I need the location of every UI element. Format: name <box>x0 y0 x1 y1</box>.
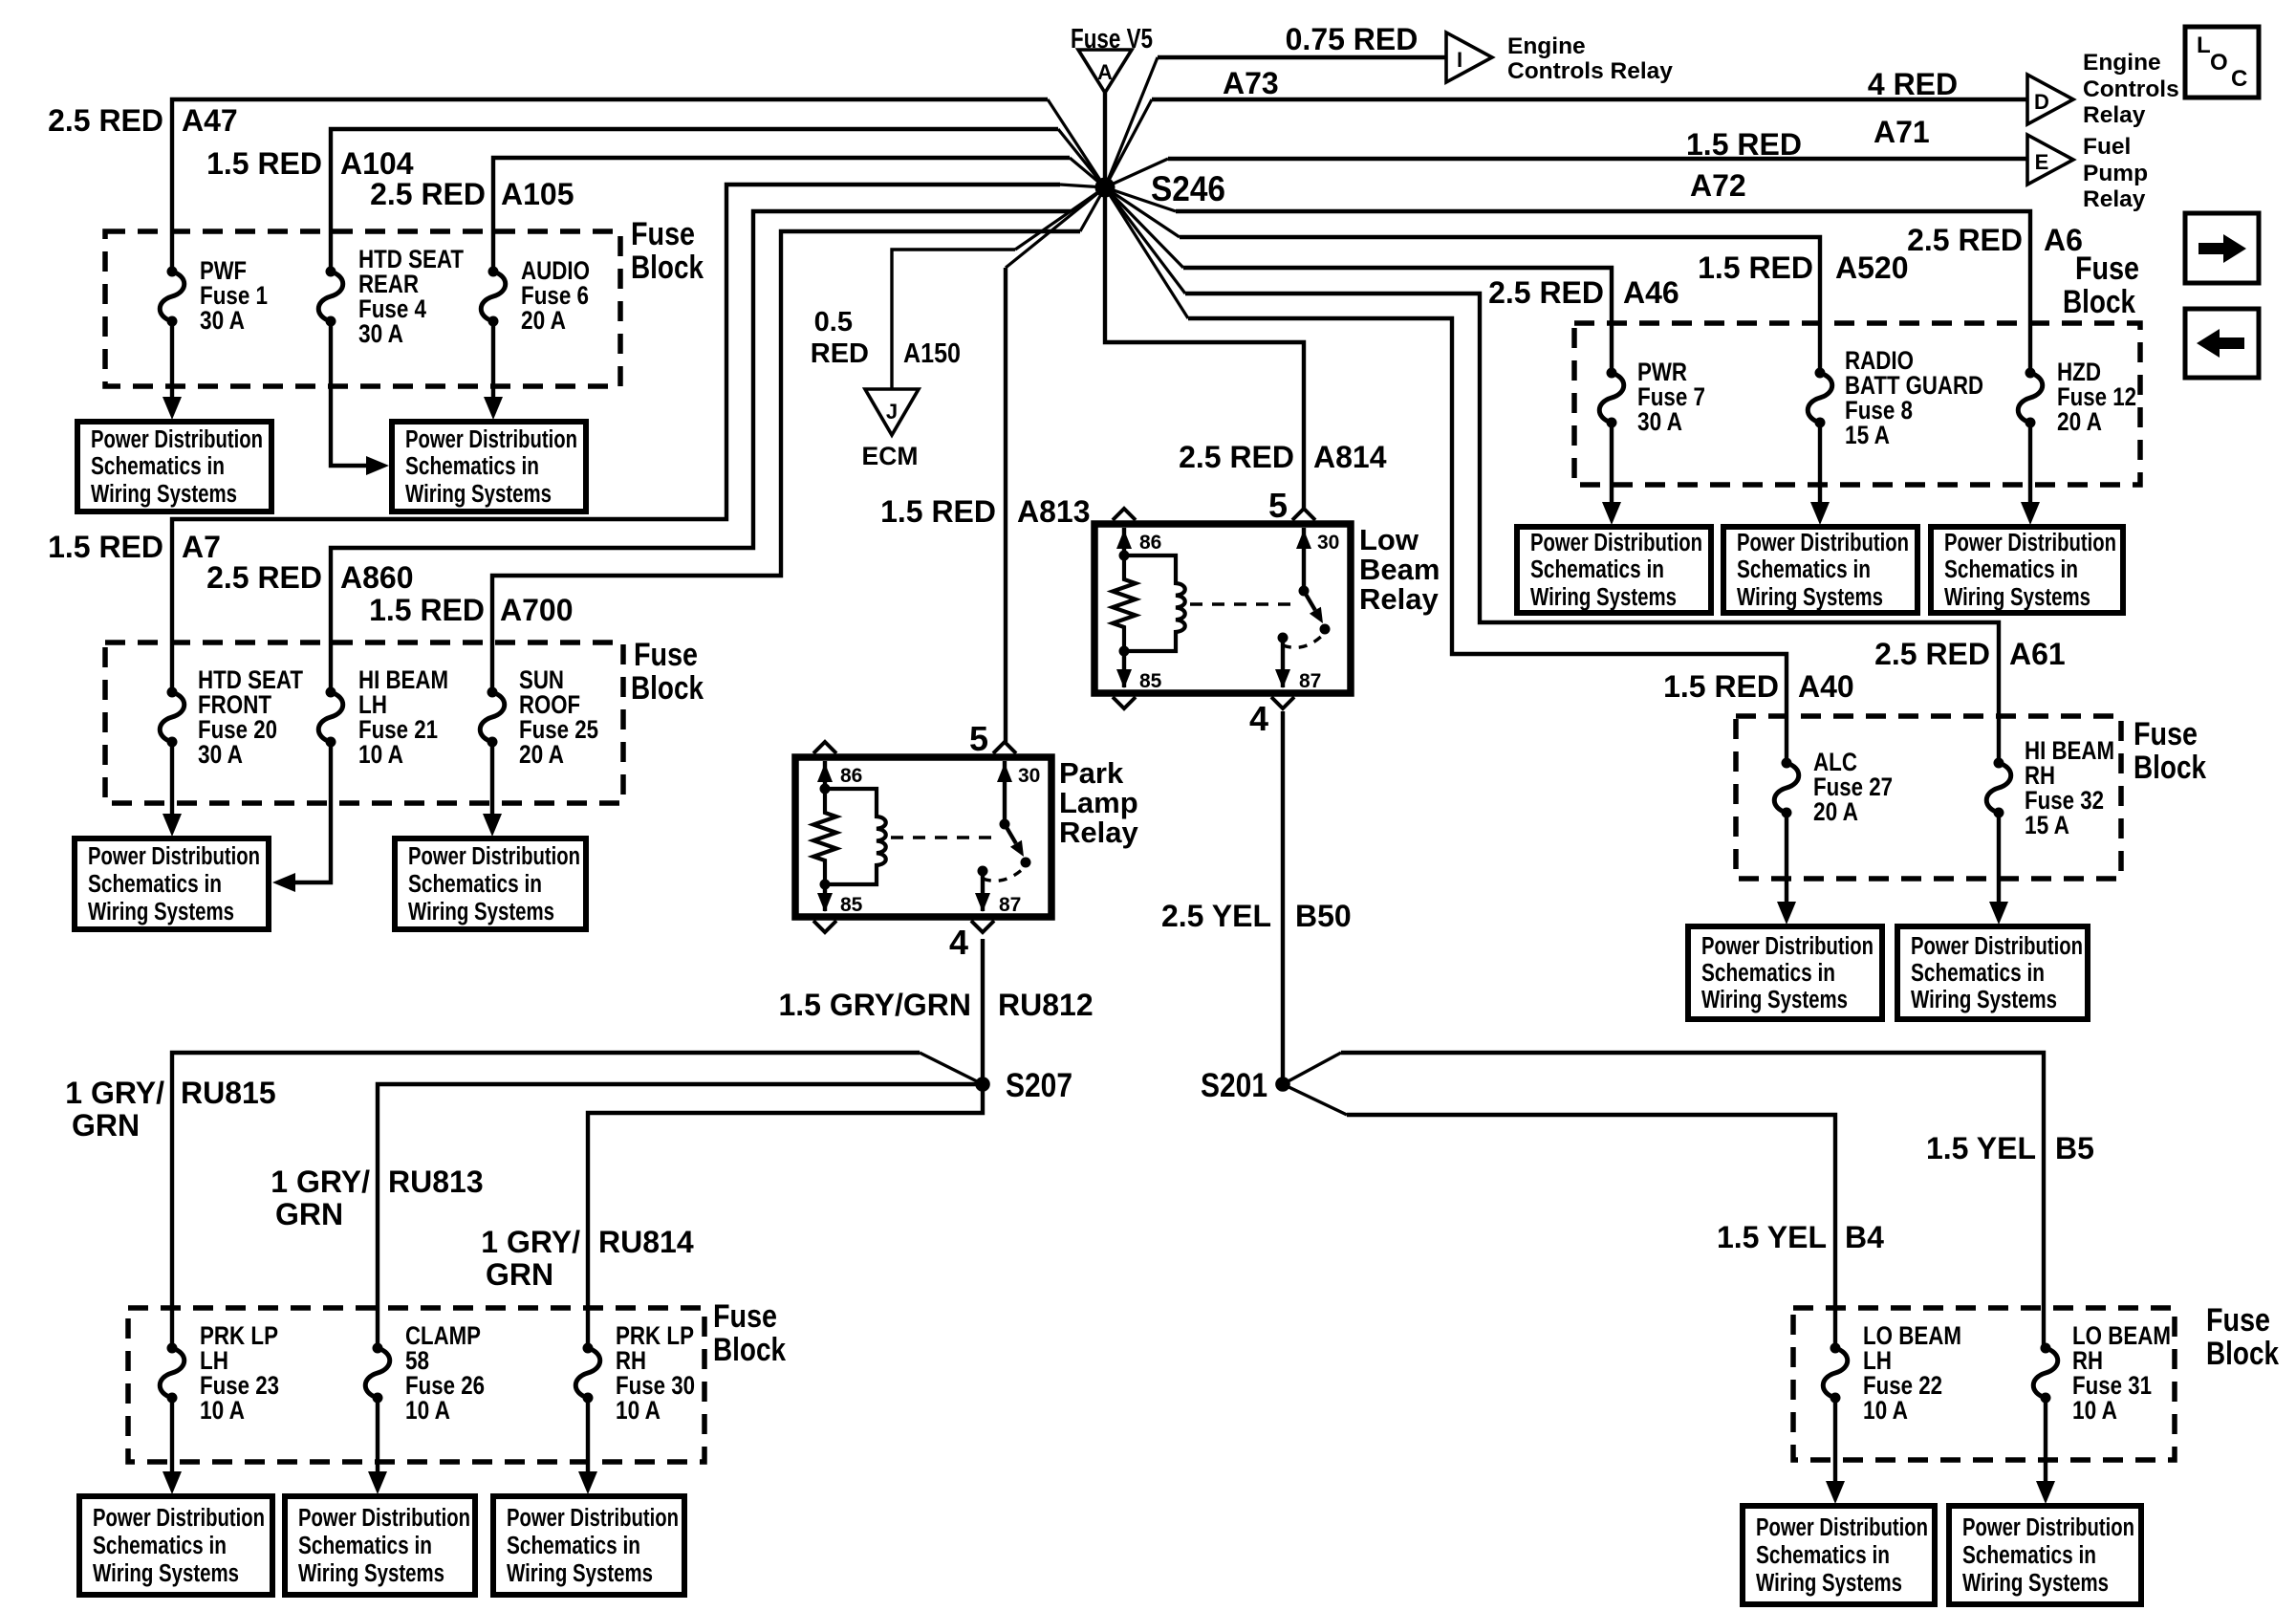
svg-text:Schematics in: Schematics in <box>1962 1542 2096 1569</box>
svg-text:GRN: GRN <box>72 1108 140 1143</box>
power distribution box (fuse 12) <box>1931 527 2123 613</box>
fuse 31 LO BEAM RH symbol <box>2041 1343 2051 1354</box>
wire B5 (S201 to fuse 31) <box>1341 1053 2044 1348</box>
svg-text:20 A: 20 A <box>1813 797 1858 826</box>
svg-text:Relay: Relay <box>2083 186 2146 212</box>
relay K2 Low Beam pin 87 terminal <box>1281 638 1285 687</box>
svg-text:Schematics in: Schematics in <box>1530 556 1664 583</box>
svg-text:15 A: 15 A <box>2025 811 2069 839</box>
wire A814 (S246 to low beam relay pin 30) <box>1105 187 1304 509</box>
svg-text:Engine: Engine <box>1507 33 1586 59</box>
svg-text:1.5 RED: 1.5 RED <box>880 494 996 529</box>
LOC legend box <box>2185 27 2259 98</box>
svg-text:Block: Block <box>713 1332 786 1368</box>
svg-text:10 A: 10 A <box>358 740 403 769</box>
connector D (engine controls relay) <box>2027 75 2073 124</box>
svg-text:C: C <box>2231 66 2247 92</box>
svg-text:Pump: Pump <box>2083 161 2148 186</box>
svg-text:1 GRY/: 1 GRY/ <box>271 1165 370 1199</box>
svg-text:Wiring Systems: Wiring Systems <box>298 1560 444 1587</box>
svg-text:A860: A860 <box>340 560 414 595</box>
svg-text:Schematics in: Schematics in <box>1911 960 2045 987</box>
svg-text:B4: B4 <box>1845 1220 1884 1254</box>
wire A700 feed (S246 to fuse 25) <box>492 231 1080 692</box>
svg-text:RU815: RU815 <box>181 1076 276 1110</box>
svg-text:O: O <box>2210 50 2228 76</box>
svg-text:S246: S246 <box>1151 169 1225 208</box>
svg-text:Engine: Engine <box>2083 50 2161 76</box>
wire RU814 (S207 to fuse 30) <box>588 1084 983 1348</box>
relay K1 Park Lamp coil winding <box>825 789 886 884</box>
svg-text:Low: Low <box>1359 523 1419 556</box>
svg-text:Wiring Systems: Wiring Systems <box>88 899 234 925</box>
svg-text:A105: A105 <box>501 177 574 211</box>
wire A72 (S246 to connector E) <box>1168 157 2027 161</box>
svg-text:A71: A71 <box>1874 115 1930 149</box>
wire RU815 (S207 to fuse 23) <box>172 1053 920 1348</box>
svg-text:Power Distribution: Power Distribution <box>93 1505 265 1532</box>
relay K2 Low Beam pin 87 connector stub (cavity 4) <box>1271 697 1294 708</box>
svg-text:A40: A40 <box>1798 669 1854 704</box>
power distribution box (fuses 4/6) <box>392 422 586 512</box>
svg-text:Fuse: Fuse <box>2134 716 2198 752</box>
svg-text:D: D <box>2034 90 2049 114</box>
svg-text:A6: A6 <box>2044 223 2083 257</box>
wire fuse 21 output arrow <box>291 742 331 882</box>
svg-text:Fuse: Fuse <box>634 637 698 673</box>
svg-text:2.5 RED: 2.5 RED <box>370 177 486 211</box>
svg-text:Power Distribution: Power Distribution <box>298 1505 470 1532</box>
svg-text:Block: Block <box>631 250 704 286</box>
svg-text:5: 5 <box>1268 486 1288 525</box>
svg-text:30 A: 30 A <box>1637 407 1682 436</box>
power distribution box (fuse 31) <box>1949 1506 2141 1604</box>
svg-text:Wiring Systems: Wiring Systems <box>405 481 552 508</box>
fuse block 6 (bottom right) dashed outline <box>1793 1308 2175 1460</box>
svg-text:4: 4 <box>949 923 968 962</box>
svg-text:1.5 RED: 1.5 RED <box>369 593 485 627</box>
svg-text:Schematics in: Schematics in <box>1701 960 1835 987</box>
svg-text:Wiring Systems: Wiring Systems <box>1756 1570 1902 1597</box>
svg-text:Schematics in: Schematics in <box>408 871 542 898</box>
svg-text:Controls: Controls <box>2083 76 2179 102</box>
splice node S246 <box>1095 178 1116 198</box>
wire fuse 31 output arrow <box>2044 1398 2047 1486</box>
svg-text:A72: A72 <box>1690 168 1746 203</box>
relay K1 Park Lamp pin 87 terminal <box>981 871 985 911</box>
power distribution box (fuse 23) <box>79 1496 272 1595</box>
relay K2 Low Beam pin 86 terminal <box>1122 528 1126 555</box>
fuse 27 ALC symbol <box>1782 758 1792 769</box>
page-forward arrow box <box>2185 213 2259 283</box>
svg-text:Power Distribution: Power Distribution <box>1530 530 1702 556</box>
svg-text:2.5 YEL: 2.5 YEL <box>1161 899 1271 933</box>
svg-text:Wiring Systems: Wiring Systems <box>93 1560 239 1587</box>
svg-text:Fuse V5: Fuse V5 <box>1071 24 1153 54</box>
svg-text:10 A: 10 A <box>2072 1396 2117 1425</box>
svg-text:10 A: 10 A <box>405 1396 450 1425</box>
svg-text:2.5 RED: 2.5 RED <box>1179 440 1294 474</box>
svg-text:30 A: 30 A <box>200 306 245 335</box>
relay K2 Low Beam pin 85 terminal <box>1122 651 1126 687</box>
wire A520 feed (S246 to fuse 8) <box>1180 237 1820 373</box>
connector J (to ECM) <box>865 389 919 435</box>
svg-text:1.5 RED: 1.5 RED <box>1698 250 1813 285</box>
svg-text:Wiring Systems: Wiring Systems <box>1737 584 1883 611</box>
svg-text:1.5 RED: 1.5 RED <box>206 146 322 181</box>
fuse 25 SUN ROOF symbol <box>487 687 498 698</box>
power distribution box (fuses 20/21) <box>75 838 269 929</box>
wire A104 feed (S246 to fuse 4) <box>331 129 1058 272</box>
svg-text:Fuse: Fuse <box>2206 1302 2270 1339</box>
power distribution box (fuse 1) <box>77 422 271 512</box>
power distribution box (fuse 30) <box>493 1496 684 1595</box>
svg-text:Beam: Beam <box>1359 553 1440 586</box>
svg-text:Power Distribution: Power Distribution <box>1737 530 1909 556</box>
svg-text:2.5 RED: 2.5 RED <box>1488 275 1604 310</box>
svg-text:Power Distribution: Power Distribution <box>1962 1514 2134 1541</box>
svg-text:RU813: RU813 <box>388 1165 484 1199</box>
svg-text:A7: A7 <box>182 530 221 564</box>
svg-text:A150: A150 <box>903 338 961 369</box>
fuse 8 RADIO BATT GUARD symbol <box>1815 368 1826 379</box>
relay K1 Park Lamp pin 85 connector stub <box>813 921 836 932</box>
svg-text:A61: A61 <box>2009 637 2066 671</box>
svg-text:30: 30 <box>1018 765 1040 787</box>
svg-text:Relay: Relay <box>1359 582 1439 616</box>
relay K1 Park Lamp pin 30 terminal <box>1003 761 1007 824</box>
relay K1 Park Lamp case <box>795 757 1051 917</box>
fuse 30 PRK LP RH symbol <box>583 1343 594 1354</box>
relay K1 Park Lamp pin 86 connector stub <box>813 742 836 753</box>
svg-text:A47: A47 <box>182 103 238 138</box>
fuse block 3 (bottom left) dashed outline <box>128 1308 704 1462</box>
svg-text:I: I <box>1457 48 1462 72</box>
relay K2 Low Beam switch arm <box>1304 591 1315 610</box>
fuse 23 PRK LP LH symbol <box>167 1343 178 1354</box>
svg-text:Schematics in: Schematics in <box>405 453 539 480</box>
svg-text:Wiring Systems: Wiring Systems <box>1911 987 2057 1013</box>
svg-text:B5: B5 <box>2055 1131 2094 1165</box>
svg-text:A104: A104 <box>340 146 414 181</box>
relay K1 Park Lamp pin 86 terminal <box>823 761 827 789</box>
svg-text:85: 85 <box>1139 670 1162 692</box>
wire fuse 32 output arrow <box>1997 813 2001 906</box>
wire fuse 22 output arrow <box>1833 1398 1837 1486</box>
power distribution box (fuse 25) <box>395 838 586 929</box>
fuse 7 PWR symbol <box>1607 368 1617 379</box>
svg-text:Power Distribution: Power Distribution <box>408 843 580 870</box>
svg-text:Wiring Systems: Wiring Systems <box>408 899 554 925</box>
fuse block 4 (top right) dashed outline <box>1574 323 2140 485</box>
svg-text:Park: Park <box>1059 756 1124 790</box>
svg-text:1.5 RED: 1.5 RED <box>1686 127 1802 162</box>
svg-text:Schematics in: Schematics in <box>1737 556 1871 583</box>
fuse 22 LO BEAM LH symbol <box>1830 1343 1841 1354</box>
svg-text:30: 30 <box>1317 532 1339 554</box>
svg-text:L: L <box>2197 33 2211 58</box>
wire fuse 26 output arrow <box>376 1398 379 1476</box>
svg-text:2.5 RED: 2.5 RED <box>1874 637 1990 671</box>
svg-text:A73: A73 <box>1223 66 1279 100</box>
svg-text:RU814: RU814 <box>598 1225 694 1259</box>
relay K2 Low Beam pin 86 connector stub <box>1113 509 1136 520</box>
svg-text:85: 85 <box>840 894 863 916</box>
svg-text:Block: Block <box>2206 1336 2279 1372</box>
splice node S207 <box>975 1077 990 1092</box>
wire fuse 7 output arrow <box>1610 423 1614 507</box>
svg-text:10 A: 10 A <box>1863 1396 1908 1425</box>
fuse 12 HZD symbol <box>2025 368 2036 379</box>
svg-text:A46: A46 <box>1623 275 1679 310</box>
svg-text:1 GRY/: 1 GRY/ <box>481 1225 580 1259</box>
wire fuse 8 output arrow <box>1818 423 1822 507</box>
relay K2 Low Beam case <box>1094 524 1351 693</box>
svg-text:Schematics in: Schematics in <box>298 1533 432 1559</box>
svg-text:Relay: Relay <box>1059 816 1138 849</box>
svg-text:E: E <box>2035 150 2049 174</box>
relay K2 Low Beam pin 30 connector stub (cavity 5) <box>1292 509 1315 520</box>
svg-text:2.5 RED: 2.5 RED <box>206 560 322 595</box>
wire A47 feed (S246 to fuse 1) <box>172 99 1048 272</box>
relay K1 Park Lamp pin 87 connector stub (cavity 4) <box>971 921 994 932</box>
svg-text:RU812: RU812 <box>998 988 1094 1022</box>
svg-text:10 A: 10 A <box>616 1396 661 1425</box>
svg-text:Power Distribution: Power Distribution <box>1701 933 1874 960</box>
fuse 4 HTD SEAT REAR symbol <box>326 267 336 277</box>
wire A6 feed (S246 to fuse 12) <box>1176 211 2030 373</box>
wire A150 (S246 to ECM connector J) <box>892 250 1015 389</box>
power distribution box (fuse 7) <box>1517 527 1711 613</box>
wire from fuse V5 connector A to S246 <box>1103 93 1107 187</box>
svg-text:20 A: 20 A <box>521 306 566 335</box>
svg-text:Controls Relay: Controls Relay <box>1507 58 1673 84</box>
svg-text:20 A: 20 A <box>519 740 564 769</box>
power distribution box (fuse 8) <box>1723 527 1917 613</box>
svg-text:Power Distribution: Power Distribution <box>1911 933 2083 960</box>
wire A73 (S246 to connector I) <box>1158 55 1446 59</box>
svg-text:4 RED: 4 RED <box>1868 67 1958 101</box>
svg-text:Schematics in: Schematics in <box>93 1533 227 1559</box>
svg-text:A520: A520 <box>1835 250 1909 285</box>
svg-text:Schematics in: Schematics in <box>1944 556 2078 583</box>
svg-text:0.75 RED: 0.75 RED <box>1286 22 1419 56</box>
svg-text:Fuel: Fuel <box>2083 134 2131 160</box>
page-back arrow box <box>2185 309 2259 378</box>
svg-text:Power Distribution: Power Distribution <box>88 843 260 870</box>
svg-text:Block: Block <box>2063 284 2135 320</box>
svg-text:4: 4 <box>1249 699 1268 738</box>
svg-text:Wiring Systems: Wiring Systems <box>1701 987 1848 1013</box>
fuse block 2 (middle left) dashed outline <box>105 642 623 803</box>
fuse block 5 (middle right) dashed outline <box>1736 716 2121 879</box>
wire fuse 25 output arrow <box>490 742 494 818</box>
fuse 1 PWF symbol <box>167 267 178 277</box>
svg-text:Wiring Systems: Wiring Systems <box>1944 584 2090 611</box>
svg-text:1.5 GRY/GRN: 1.5 GRY/GRN <box>778 988 971 1022</box>
svg-text:20 A: 20 A <box>2057 407 2102 436</box>
relay K2 Low Beam pin 30 terminal <box>1302 528 1306 591</box>
svg-text:1.5 RED: 1.5 RED <box>48 530 163 564</box>
svg-text:RED: RED <box>811 338 869 369</box>
svg-text:B50: B50 <box>1295 899 1352 933</box>
svg-text:1.5 YEL: 1.5 YEL <box>1717 1220 1827 1254</box>
svg-text:2.5 RED: 2.5 RED <box>48 103 163 138</box>
svg-text:Wiring Systems: Wiring Systems <box>91 481 237 508</box>
svg-text:Wiring Systems: Wiring Systems <box>507 1560 653 1587</box>
wire RU812 (park lamp relay pin 87 to S207) <box>981 939 985 1084</box>
svg-text:Fuse: Fuse <box>631 216 695 252</box>
fuse 32 HI BEAM RH symbol <box>1994 758 2004 769</box>
connector E (fuel pump relay) <box>2027 135 2073 185</box>
wire fuse 30 output arrow <box>586 1398 590 1476</box>
svg-text:A: A <box>1097 60 1113 84</box>
relay K1 Park Lamp actuation link (dashed) <box>891 836 993 838</box>
svg-text:1 GRY/: 1 GRY/ <box>65 1076 164 1110</box>
wire fuse 20 output arrow <box>170 742 174 818</box>
svg-text:Power Distribution: Power Distribution <box>91 426 263 453</box>
wire A40 feed (S246 to fuse 27) <box>1188 318 1787 763</box>
relay K1 Park Lamp coil resistor <box>813 789 836 884</box>
wire fuse 12 output arrow <box>2028 423 2032 507</box>
svg-text:87: 87 <box>999 894 1021 916</box>
svg-text:Power Distribution: Power Distribution <box>507 1505 679 1532</box>
connector I (engine controls relay) <box>1446 33 1492 82</box>
wire B50 (low beam relay pin 87 to S201) <box>1281 711 1285 1084</box>
relay K2 Low Beam coil resistor <box>1113 555 1136 651</box>
svg-text:GRN: GRN <box>275 1197 343 1231</box>
svg-text:1.5 YEL: 1.5 YEL <box>1926 1131 2036 1165</box>
svg-text:GRN: GRN <box>486 1257 553 1292</box>
svg-text:Wiring Systems: Wiring Systems <box>1962 1570 2109 1597</box>
wire A105 feed (S246 to fuse 6) <box>493 158 1070 272</box>
wire A61 feed (S246 to fuse 32) <box>1185 294 1999 763</box>
svg-text:A813: A813 <box>1017 494 1091 529</box>
svg-text:1.5 RED: 1.5 RED <box>1663 669 1779 704</box>
wire fuse 27 output arrow <box>1785 813 1788 906</box>
svg-text:S207: S207 <box>1006 1067 1072 1104</box>
power distribution box (fuse 27) <box>1688 926 1882 1019</box>
wire A7 feed (S246 to fuse 20) <box>172 185 1060 692</box>
svg-text:Power Distribution: Power Distribution <box>1756 1514 1928 1541</box>
svg-text:J: J <box>886 400 898 424</box>
svg-text:Block: Block <box>631 670 704 707</box>
wire fuse 23 output arrow <box>170 1398 174 1476</box>
svg-text:0.5: 0.5 <box>814 307 853 337</box>
splice node S201 <box>1275 1077 1290 1092</box>
power distribution box (fuse 32) <box>1897 926 2088 1019</box>
fuse 21 HI BEAM LH symbol <box>326 687 336 698</box>
svg-text:S201: S201 <box>1201 1067 1267 1104</box>
svg-text:Schematics in: Schematics in <box>1756 1542 1890 1569</box>
svg-text:Block: Block <box>2134 750 2206 786</box>
svg-text:Schematics in: Schematics in <box>507 1533 640 1559</box>
wire fuse 1 output arrow <box>170 321 174 402</box>
svg-text:Schematics in: Schematics in <box>91 453 225 480</box>
svg-text:86: 86 <box>1139 532 1161 554</box>
relay K1 Park Lamp pin 87 contact <box>978 866 988 877</box>
fuse 26 CLAMP symbol <box>373 1343 383 1354</box>
wire B4 (S201 to fuse 22) <box>1347 1115 1835 1348</box>
wire fuse 4 output arrow <box>331 321 371 466</box>
fuse 20 HTD SEAT FRONT symbol <box>167 687 178 698</box>
relay K1 Park Lamp switch arm <box>1005 824 1016 843</box>
relay K2 Low Beam actuation link (dashed) <box>1190 602 1292 605</box>
svg-text:A814: A814 <box>1313 440 1387 474</box>
wire A860 feed (S246 to fuse 21) <box>331 211 1071 692</box>
svg-text:Relay: Relay <box>2083 102 2146 128</box>
relay K2 Low Beam pin 87 contact <box>1278 633 1289 643</box>
power distribution box (fuse 22) <box>1743 1506 1935 1604</box>
svg-text:Lamp: Lamp <box>1059 786 1138 819</box>
svg-text:2.5 RED: 2.5 RED <box>1907 223 2023 257</box>
wire A46 feed (S246 to fuse 7) <box>1183 268 1612 373</box>
svg-text:Schematics in: Schematics in <box>88 871 222 898</box>
svg-text:Power Distribution: Power Distribution <box>405 426 577 453</box>
wire RU813 (S207 to fuse 26) <box>378 1084 983 1348</box>
svg-text:5: 5 <box>969 719 988 758</box>
svg-text:30 A: 30 A <box>198 740 243 769</box>
svg-text:A700: A700 <box>500 593 574 627</box>
svg-text:ECM: ECM <box>862 442 919 470</box>
fuse 6 AUDIO symbol <box>488 267 499 277</box>
fuse block 1 (top left) dashed outline <box>105 231 620 386</box>
wire fuse 6 output arrow <box>491 321 495 402</box>
svg-text:30 A: 30 A <box>358 319 403 348</box>
relay K2 Low Beam pin 85 connector stub <box>1113 697 1136 708</box>
svg-text:15 A: 15 A <box>1845 421 1890 449</box>
wire A813 (S246 to park lamp relay pin 30) <box>1004 268 1007 742</box>
connector A (Fuse V5) <box>1078 50 1132 93</box>
svg-text:Wiring Systems: Wiring Systems <box>1530 584 1677 611</box>
svg-text:Fuse: Fuse <box>2075 250 2139 287</box>
power distribution box (fuse 26) <box>285 1496 475 1595</box>
relay K1 Park Lamp pin 85 terminal <box>823 884 827 911</box>
svg-text:87: 87 <box>1299 670 1321 692</box>
relay K2 Low Beam coil winding <box>1124 555 1185 651</box>
svg-text:Fuse: Fuse <box>713 1298 777 1335</box>
relay K1 Park Lamp pin 30 connector stub (cavity 5) <box>993 742 1016 753</box>
wire A71 (S246 to connector D) <box>1152 98 2027 101</box>
svg-text:86: 86 <box>840 765 862 787</box>
svg-text:Power Distribution: Power Distribution <box>1944 530 2116 556</box>
svg-text:10 A: 10 A <box>200 1396 245 1425</box>
